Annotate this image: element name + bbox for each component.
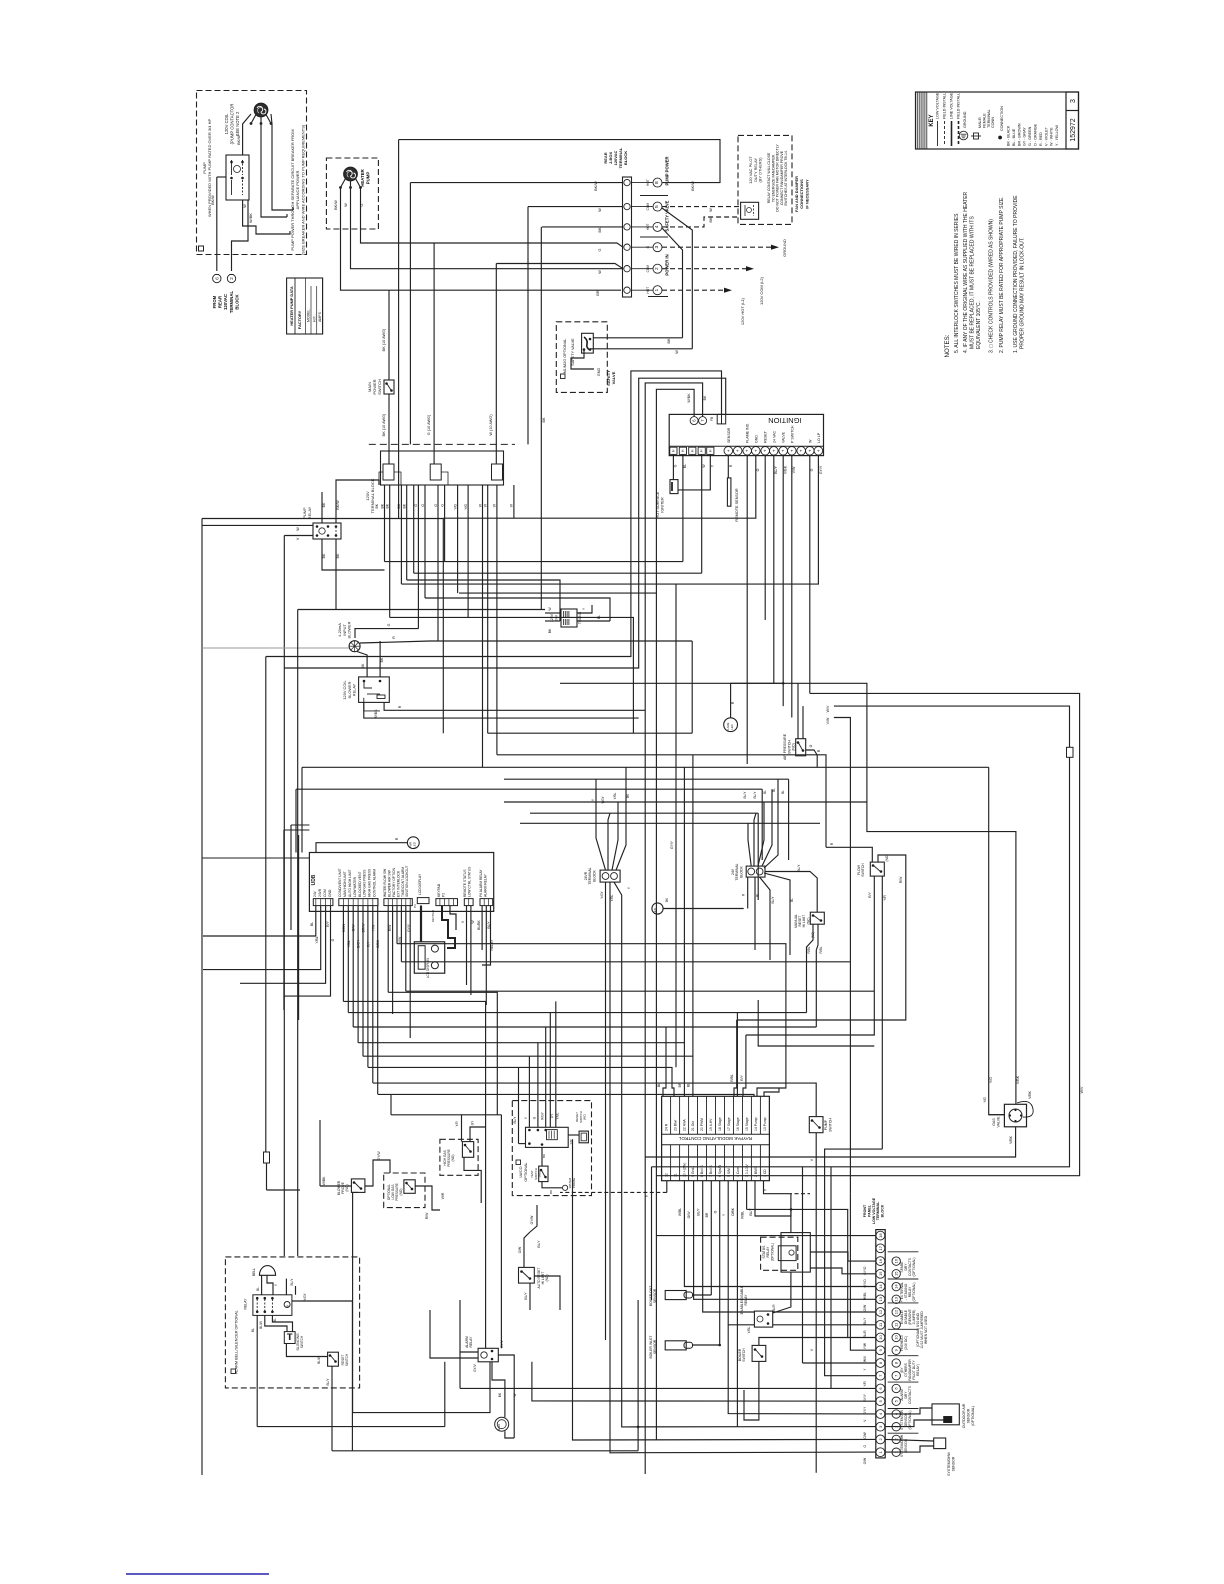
feeds 14,13 from mod control W/BL O/W xyxy=(684,1232,875,1287)
left bundle verticals xyxy=(265,657,267,1153)
svg-text:GY/Y: GY/Y xyxy=(670,840,674,849)
svg-text:POWER IN: POWER IN xyxy=(665,254,670,275)
svg-text:Y/BL: Y/BL xyxy=(613,792,617,799)
ground symbol xyxy=(959,131,968,140)
svg-text:16: 16 xyxy=(894,1258,899,1263)
circled terminals 8,5,4,3,2,1 xyxy=(632,182,653,184)
ground circle symbol xyxy=(495,1417,509,1431)
svg-text:+: + xyxy=(799,449,804,452)
terminal 1 dashed L1 arrow xyxy=(662,289,725,291)
power led xyxy=(407,837,419,849)
status relay dashed box xyxy=(761,1237,798,1270)
flow switch xyxy=(870,862,884,876)
svg-text:5 S/M: 5 S/M xyxy=(727,1168,731,1177)
svg-text:LOW GAS PRESS: LOW GAS PRESS xyxy=(363,869,367,897)
svg-text:LCD DISPLAY: LCD DISPLAY xyxy=(426,957,430,978)
svg-text:12: 12 xyxy=(894,1309,899,1314)
svg-text:(NO): (NO) xyxy=(538,1171,542,1178)
svg-text:COM: COM xyxy=(646,265,650,273)
pump relay wires bottom xyxy=(322,539,385,570)
svg-text:FIELD INSTALL: FIELD INSTALL xyxy=(957,93,961,119)
svg-text:BK: BK xyxy=(322,502,326,507)
svg-text:WATER FLOW SW: WATER FLOW SW xyxy=(383,868,387,897)
svg-text:W/BK: W/BK xyxy=(322,1176,326,1185)
dashed boundary line above 120v terminal block xyxy=(369,443,515,445)
svg-text:17: 17 xyxy=(878,1245,883,1250)
svg-text:R: R xyxy=(392,636,396,639)
safety valve wires xyxy=(593,337,682,339)
hot surface igniter xyxy=(670,480,678,494)
svg-text:(NC): (NC) xyxy=(583,1114,587,1120)
svg-text:W: W xyxy=(598,270,602,274)
svg-text:5. ALL INTERLOCK SWITCHES MUST: 5. ALL INTERLOCK SWITCHES MUST BE WIRED … xyxy=(954,213,960,353)
svg-text:R/W: R/W xyxy=(425,1212,429,1219)
alarm relay xyxy=(478,1348,498,1362)
svg-text:G: G xyxy=(598,248,602,251)
svg-text:BK: BK xyxy=(549,1190,553,1194)
svg-text:BL/Y: BL/Y xyxy=(749,1208,753,1216)
svg-text:8: 8 xyxy=(654,181,660,184)
svg-text:IF NECESSARY: IF NECESSARY xyxy=(804,179,809,209)
UDB terminal strip P5 xyxy=(339,899,378,906)
boiler switch xyxy=(752,1345,766,1361)
svg-text:(NO): (NO) xyxy=(885,855,889,862)
svg-text:BLOWER: BLOWER xyxy=(347,621,352,638)
svg-text:24 R: 24 R xyxy=(664,1123,668,1131)
svg-text:BK (10 AWG): BK (10 AWG) xyxy=(382,328,386,351)
wire to gas valve top xyxy=(560,683,1016,1104)
svg-text:SAFETY VALVE: SAFETY VALVE xyxy=(571,338,575,366)
svg-text:Y/BL: Y/BL xyxy=(315,936,319,943)
svg-text:+: + xyxy=(789,449,794,452)
svg-text:P3: P3 xyxy=(413,904,417,908)
svg-text:EXT INTERLOCK: EXT INTERLOCK xyxy=(396,870,400,897)
svg-text:HEATER PUMP DATA: HEATER PUMP DATA xyxy=(289,286,294,325)
svg-text:BK/W: BK/W xyxy=(237,135,241,145)
svg-text:BL/Y: BL/Y xyxy=(537,1240,541,1248)
keypad connector xyxy=(436,899,458,906)
svg-text:BL/Y: BL/Y xyxy=(524,1292,528,1300)
svg-text:5: 5 xyxy=(654,205,660,208)
svg-text:W: W xyxy=(702,464,706,468)
svg-text:4: 4 xyxy=(654,225,660,228)
svg-text:V/BK: V/BK xyxy=(1009,1135,1013,1143)
120V terminal block xyxy=(381,451,504,485)
motor M pump contactor xyxy=(254,103,268,117)
wire to terminal 2 xyxy=(232,200,249,271)
FB wire 1 xyxy=(266,371,722,657)
svg-text:GY/Y: GY/Y xyxy=(819,465,823,474)
svg-text:RELAY: RELAY xyxy=(352,683,357,696)
dashed box: optional pump contactor xyxy=(197,91,307,255)
svg-text:152972: 152972 xyxy=(1070,118,1077,141)
svg-text:SWITCH: SWITCH xyxy=(742,1348,746,1362)
terminal 4 dashed wire xyxy=(662,217,740,227)
svg-text:RAYPAK MODULATING CONTROL: RAYPAK MODULATING CONTROL xyxy=(678,1136,752,1141)
svg-text:BR/W: BR/W xyxy=(362,923,366,933)
svg-text:G (10 AWG): G (10 AWG) xyxy=(427,414,431,435)
svg-text:BL/W: BL/W xyxy=(317,1356,321,1364)
svg-text:+: + xyxy=(745,449,750,452)
terminal 8 wire to relay xyxy=(662,182,720,184)
svg-text:ALARM BELL/SILENCER OPTIONAL: ALARM BELL/SILENCER OPTIONAL xyxy=(235,1310,239,1374)
pump switch xyxy=(809,1117,823,1133)
svg-text:SEE NOTE 2: SEE NOTE 2 xyxy=(235,111,240,136)
24v tb fan wires up xyxy=(748,823,751,866)
svg-text:AMPS :: AMPS : xyxy=(318,310,322,322)
UDB strip P6 xyxy=(464,899,473,906)
svg-text:3 0-10 V: 3 0-10 V xyxy=(745,1163,749,1177)
svg-text:R/W: R/W xyxy=(388,924,392,931)
front panel low voltage terminal block xyxy=(876,1230,885,1458)
contactor box xyxy=(226,155,249,200)
svg-text:W/V: W/V xyxy=(863,1355,867,1362)
long loop right xyxy=(656,693,1079,1175)
4-20ma input blower motor xyxy=(349,641,360,652)
svg-text:14: 14 xyxy=(894,1284,899,1289)
120v coil blower relay xyxy=(359,677,390,703)
UDB bottom wires P1 xyxy=(203,906,316,937)
svg-text:BK/W: BK/W xyxy=(336,500,340,510)
UDB bottom wires P4 xyxy=(387,906,389,993)
svg-text:W/BK: W/BK xyxy=(374,709,378,719)
BK wire to circle 7 xyxy=(645,383,702,1474)
svg-text:(BY OTHERS): (BY OTHERS) xyxy=(758,157,763,183)
svg-text:13: 13 xyxy=(894,1296,899,1301)
svg-text:(NO): (NO) xyxy=(792,743,796,751)
svg-text:Y/G: Y/G xyxy=(453,504,457,510)
UDB strip P7 xyxy=(480,899,493,906)
svg-text:GY/Y: GY/Y xyxy=(407,923,411,932)
pump relay wires left xyxy=(202,524,313,526)
svg-text:SENSOR: SENSOR xyxy=(653,1288,657,1303)
air pressure switch xyxy=(796,739,806,756)
svg-text:BL - BLUE: BL - BLUE xyxy=(1012,128,1016,146)
svg-text:BK: BK xyxy=(375,503,379,508)
svg-text:+: + xyxy=(726,449,731,452)
svg-text:RELAY): RELAY) xyxy=(916,1364,920,1376)
key hatching xyxy=(916,92,918,149)
svg-text:18: 18 xyxy=(878,1233,883,1238)
svg-text:REMOTE STATUS: REMOTE STATUS xyxy=(463,869,467,897)
svg-text:O/BK: O/BK xyxy=(731,1207,735,1216)
svg-text:7 Boil S: 7 Boil S xyxy=(709,1165,713,1177)
wire v/w down right xyxy=(834,718,851,1194)
dashed box LWCO optional xyxy=(512,1101,591,1196)
svg-text:BL: BL xyxy=(683,464,687,468)
svg-text:BK (10 AWG): BK (10 AWG) xyxy=(382,413,386,436)
wires into strip xyxy=(410,182,623,184)
svg-text:MODEL :: MODEL : xyxy=(307,308,311,322)
svg-text:BL/Y: BL/Y xyxy=(774,466,778,474)
svg-text:O/W: O/W xyxy=(518,1246,522,1253)
svg-text:1 CD: 1 CD xyxy=(763,1169,767,1177)
svg-text:14: 14 xyxy=(878,1284,883,1289)
svg-text:BK/W: BK/W xyxy=(334,200,338,210)
feeds 6,5 alarm contacts xyxy=(830,1167,832,1389)
svg-text:W/BK: W/BK xyxy=(687,393,691,403)
svg-text:GY/V: GY/V xyxy=(500,1339,504,1347)
svg-text:+: + xyxy=(781,449,786,452)
svg-text:(PUMP CONTACTOR: (PUMP CONTACTOR xyxy=(230,104,235,145)
svg-text:W/BL: W/BL xyxy=(678,1208,682,1216)
W/BK wire to circle 6 xyxy=(656,389,694,1440)
silencing switch xyxy=(284,1332,295,1344)
svg-text:W: W xyxy=(808,439,812,443)
svg-text:R/Y: R/Y xyxy=(868,891,872,897)
svg-text:BK: BK xyxy=(336,553,340,558)
svg-text:1: 1 xyxy=(654,289,660,292)
svg-text:R: R xyxy=(395,837,399,840)
svg-text:R: R xyxy=(398,705,402,708)
svg-text:O/W: O/W xyxy=(352,924,356,932)
svg-text:4. IF ANY OF THE ORIGINAL WIRE: 4. IF ANY OF THE ORIGINAL WIRE AS SUPPLI… xyxy=(963,191,969,353)
svg-text:V/BK: V/BK xyxy=(784,465,788,474)
svg-text:VALVE: VALVE xyxy=(996,1116,1000,1128)
svg-text:IGNITION: IGNITION xyxy=(768,416,801,425)
svg-text:V/W: V/W xyxy=(398,936,402,943)
svg-text:SWITCH: SWITCH xyxy=(828,1118,832,1132)
svg-text:HEATER: HEATER xyxy=(360,168,365,186)
svg-text:R - RED: R - RED xyxy=(1039,132,1043,146)
svg-text:(24V DC): (24V DC) xyxy=(904,1336,908,1350)
right feeds to mod control top xyxy=(734,1081,737,1096)
svg-text:BK: BK xyxy=(667,338,671,344)
svg-text:RESET: RESET xyxy=(764,430,768,443)
bottom interconnects xyxy=(257,1426,445,1428)
svg-text:BK: BK xyxy=(386,503,390,508)
svg-text:BL/Y: BL/Y xyxy=(743,791,747,799)
svg-text:W/R: W/R xyxy=(441,1192,445,1199)
svg-text:KEY: KEY xyxy=(929,114,935,126)
rear j-box 120vac terminal block strip xyxy=(623,177,632,297)
svg-text:PROPER GROUND MAY RESULT IN LO: PROPER GROUND MAY RESULT IN LOCK-OUT. xyxy=(1020,237,1026,349)
svg-text:Y/BL: Y/BL xyxy=(347,940,351,947)
heater pump data table xyxy=(287,278,323,334)
svg-text:CONN: CONN xyxy=(991,117,995,128)
svg-text:GY/W: GY/W xyxy=(377,1151,381,1161)
svg-text:TERMINAL: TERMINAL xyxy=(987,109,991,128)
svg-text:11: 11 xyxy=(673,1173,677,1177)
svg-text:BL: BL xyxy=(790,898,794,902)
svg-text:+: + xyxy=(753,449,758,452)
svg-text:GY/Y: GY/Y xyxy=(863,1406,867,1415)
lwco feed verticals xyxy=(518,1067,520,1143)
svg-text:R/BL: R/BL xyxy=(807,946,811,953)
wires below 120V terminal block xyxy=(378,480,380,485)
blower wires xyxy=(355,629,418,638)
svg-text:TERMINAL: TERMINAL xyxy=(229,291,234,314)
ignition gnd wire xyxy=(443,455,756,518)
main power switch xyxy=(384,380,394,394)
svg-text:RELAY: RELAY xyxy=(744,1294,748,1306)
svg-text:Y/R: Y/R xyxy=(883,895,887,901)
svg-text:GROUND: GROUND xyxy=(782,239,787,257)
bell wires xyxy=(261,1275,263,1295)
terminal 3 dashed ground arrow xyxy=(662,246,772,248)
svg-text:6 Sys/O: 6 Sys/O xyxy=(718,1165,722,1177)
svg-text:EQUIVALENT 105°C.: EQUIVALENT 105°C. xyxy=(976,301,982,349)
svg-text:O/BK: O/BK xyxy=(376,939,380,948)
dashed box: 120 vac pilot duty relay xyxy=(738,135,792,224)
svg-text:G: G xyxy=(810,468,814,471)
svg-text:R/Y: R/Y xyxy=(326,920,330,926)
svg-text:PANEL: PANEL xyxy=(867,1204,871,1217)
svg-text:HOT: HOT xyxy=(646,179,650,186)
feeds 4,3,2,1 xyxy=(573,1139,876,1440)
mod control bottom wires xyxy=(666,1181,668,1193)
svg-text:G: G xyxy=(440,504,444,507)
relay right wire down xyxy=(292,1301,353,1451)
svg-text:BLOCK: BLOCK xyxy=(592,870,596,882)
svg-text:24V: 24V xyxy=(313,890,317,897)
svg-text:BL/Y: BL/Y xyxy=(326,1378,330,1386)
svg-text:W/BL: W/BL xyxy=(741,1211,745,1219)
svg-text:BELL: BELL xyxy=(252,1268,256,1276)
svg-text:13 Pump: 13 Pump xyxy=(763,1117,767,1131)
svg-text:CONTACTS: CONTACTS xyxy=(908,1385,912,1404)
svg-text:GND: GND xyxy=(328,889,332,897)
trans wires xyxy=(545,612,560,614)
svg-text:V - VIOLET: V - VIOLET xyxy=(1044,126,1048,146)
svg-text:G: G xyxy=(414,504,418,507)
svg-text:BLOCKED VENT: BLOCKED VENT xyxy=(358,872,362,897)
svg-text:19 4-HV: 19 4-HV xyxy=(709,1118,713,1131)
svg-text:R/Y: R/Y xyxy=(740,1074,744,1080)
svg-text:OUTDOOR AIR: OUTDOOR AIR xyxy=(962,1403,966,1428)
svg-text:G: G xyxy=(360,203,364,206)
svg-text:H.P. :: H.P. : xyxy=(313,314,317,322)
boiler out sensor xyxy=(665,1291,686,1300)
reset switch (alarm) xyxy=(328,1352,339,1366)
svg-text:FACTORY: FACTORY xyxy=(297,310,302,329)
svg-text:BK/W: BK/W xyxy=(211,195,215,205)
svg-text:8 Boil S: 8 Boil S xyxy=(700,1165,704,1177)
svg-text:Y/R: Y/R xyxy=(569,1139,573,1145)
svg-text:REMOTE SENSOR: REMOTE SENSOR xyxy=(735,488,739,522)
svg-text:Y/GY: Y/GY xyxy=(601,795,605,803)
ignition top terminals xyxy=(690,417,698,425)
svg-text:IGNITER: IGNITER xyxy=(661,497,665,513)
svg-text:SYSTEM/DHW: SYSTEM/DHW xyxy=(947,1451,951,1475)
wire to terminal 6 xyxy=(216,177,218,271)
svg-text:O/W: O/W xyxy=(687,1211,691,1219)
svg-text:BLOWER AIR SW: BLOWER AIR SW xyxy=(388,869,392,897)
svg-text:W: W xyxy=(296,527,300,531)
svg-text:BL: BL xyxy=(273,1318,277,1322)
svg-text:+: + xyxy=(771,449,776,452)
svg-text:OPTIONAL: OPTIONAL xyxy=(524,1162,528,1181)
svg-text:24 VAC: 24 VAC xyxy=(772,430,776,443)
svg-text:V: V xyxy=(296,537,300,540)
svg-text:G - GREEN: G - GREEN xyxy=(1028,126,1032,146)
svg-text:KEYPAD: KEYPAD xyxy=(431,909,435,922)
ignition control box xyxy=(669,414,823,455)
svg-text:FLAME: FLAME xyxy=(726,722,730,731)
svg-text:BL/Y: BL/Y xyxy=(797,864,801,872)
svg-text:10: 10 xyxy=(878,1335,883,1340)
svg-text:LED: LED xyxy=(653,907,657,914)
svg-text:O - ORANGE: O - ORANGE xyxy=(1034,123,1038,146)
svg-text:SWITCH: SWITCH xyxy=(861,863,865,877)
svg-text:HOT SURFACE: HOT SURFACE xyxy=(656,491,660,518)
gas valve xyxy=(1004,1104,1026,1127)
svg-text:12: 12 xyxy=(878,1309,883,1314)
sensor body xyxy=(934,1438,946,1449)
boiler switch to term 10 xyxy=(759,1338,848,1346)
svg-text:O: O xyxy=(809,744,813,747)
lgp to hgp wire xyxy=(415,1186,440,1210)
svg-text:V/BK: V/BK xyxy=(1028,1090,1032,1098)
LCD display module xyxy=(414,942,444,973)
svg-text:120V HOT (L1): 120V HOT (L1) xyxy=(740,297,745,325)
svg-text:15: 15 xyxy=(894,1271,899,1276)
svg-text:LINE VOLTAGE: LINE VOLTAGE xyxy=(950,92,954,119)
inline fuse left xyxy=(264,1152,270,1163)
svg-text:LO LP: LO LP xyxy=(817,432,821,443)
svg-text:BK: BK xyxy=(709,217,713,223)
checkbox pump optional xyxy=(199,246,204,251)
24vr wires down xyxy=(605,882,607,1340)
bl/y gy wires near auto limit xyxy=(530,1205,537,1232)
svg-text:R: R xyxy=(729,464,733,467)
svg-text:BL/Y: BL/Y xyxy=(771,896,775,904)
svg-text:G: G xyxy=(331,938,335,941)
svg-text:MAN HIGH LIMIT: MAN HIGH LIMIT xyxy=(343,871,347,897)
svg-text:Y/BL: Y/BL xyxy=(556,1112,560,1119)
svg-text:BK: BK xyxy=(361,663,365,668)
pump relay xyxy=(313,523,341,539)
svg-text:FLAME IND.: FLAME IND. xyxy=(746,423,750,443)
svg-text:9 Gnd/-: 9 Gnd/- xyxy=(691,1166,695,1177)
svg-text:W: W xyxy=(675,350,679,354)
svg-text:MALE/: MALE/ xyxy=(978,116,982,128)
svg-text:BR: BR xyxy=(596,290,600,296)
lwco test switch xyxy=(539,1166,548,1182)
UDB box xyxy=(309,853,493,912)
svg-text:LWCO: LWCO xyxy=(519,1166,523,1177)
svg-text:W: W xyxy=(344,203,348,207)
svg-text:RELAY: RELAY xyxy=(469,1336,473,1348)
svg-text:BL: BL xyxy=(310,922,314,926)
gas valve bottom wire xyxy=(645,1127,1015,1157)
svg-text:15 Stage: 15 Stage xyxy=(745,1117,749,1131)
24vr fan wires up xyxy=(596,779,606,870)
svg-text:SENSOR: SENSOR xyxy=(951,1456,955,1471)
svg-text:Y/BL: Y/BL xyxy=(610,894,614,901)
svg-text:+: + xyxy=(763,449,768,452)
svg-text:COM: COM xyxy=(323,889,327,897)
svg-text:R/Y: R/Y xyxy=(366,940,370,946)
svg-text:SWITCHES AT INTERLOCK TB-14.: SWITCHES AT INTERLOCK TB-14. xyxy=(784,150,788,206)
hi limit wires down xyxy=(807,924,814,1012)
svg-text:+: + xyxy=(816,449,821,452)
svg-text:LED: LED xyxy=(730,724,734,729)
svg-text:LED: LED xyxy=(413,842,417,847)
svg-text:Y/R: Y/R xyxy=(863,1381,867,1387)
svg-text:16: 16 xyxy=(878,1258,883,1263)
wire y/g to gas valve xyxy=(989,767,1005,1114)
svg-text:FRONT: FRONT xyxy=(863,1204,867,1217)
svg-text:W: W xyxy=(598,208,602,212)
svg-text:HIGH GAS PRESS: HIGH GAS PRESS xyxy=(368,868,372,897)
svg-text:3: 3 xyxy=(1070,99,1077,103)
svg-text:13: 13 xyxy=(878,1296,883,1301)
svg-text:BK: BK xyxy=(703,395,707,400)
inline connector right xyxy=(1067,747,1074,757)
svg-text:4 Com: 4 Com xyxy=(736,1167,740,1177)
svg-text:Y/W: Y/W xyxy=(371,924,375,931)
